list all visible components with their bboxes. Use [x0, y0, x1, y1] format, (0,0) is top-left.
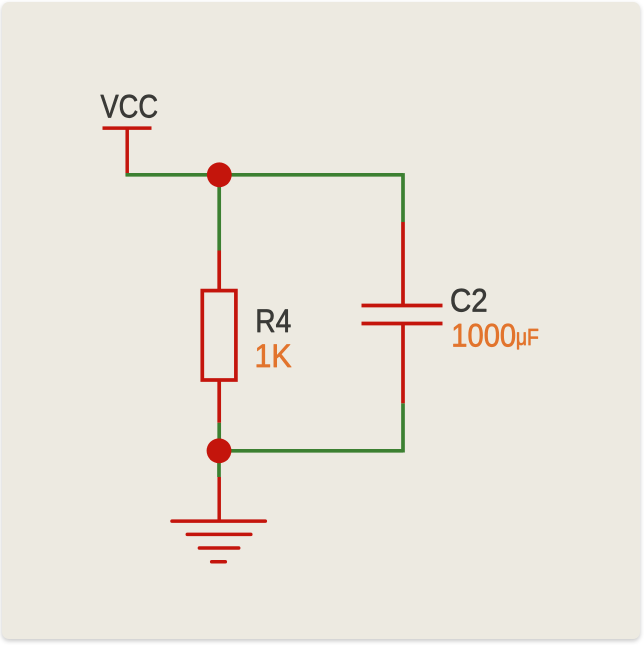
- wire top right vertical (to capacitor): [401, 173, 405, 222]
- junction node B: [207, 438, 232, 463]
- wire bottom right vertical (capacitor to node B): [401, 403, 405, 452]
- svg-text:VCC: VCC: [101, 89, 159, 125]
- resistor R4: [202, 251, 236, 423]
- svg-text:1000: 1000: [451, 318, 516, 354]
- capacitor C2: [362, 222, 443, 403]
- junction node A: [207, 162, 232, 187]
- wire node B to capacitor (bottom horizontal): [219, 449, 403, 453]
- wire node A down to resistor: [217, 175, 221, 251]
- svg-text:C2: C2: [450, 282, 488, 318]
- wire VCC to node A (top horizontal): [126, 173, 404, 177]
- power symbol VCC: [103, 128, 152, 176]
- ground: [172, 477, 265, 562]
- wire resistor to node B: [217, 423, 221, 452]
- svg-text:μF: μF: [516, 324, 539, 350]
- svg-text:1K: 1K: [255, 338, 292, 374]
- svg-text:R4: R4: [255, 303, 291, 339]
- wire node B to ground: [217, 451, 221, 477]
